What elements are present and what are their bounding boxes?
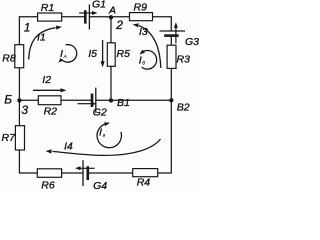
node A xyxy=(109,15,113,19)
wire G1 thin plate to R9 (through node A) xyxy=(89,16,129,18)
loop arrow IB xyxy=(139,50,156,69)
svg-text:I4: I4 xyxy=(64,141,73,153)
resistor R2 xyxy=(38,96,61,105)
svg-text:б: б xyxy=(142,60,145,66)
svg-text:R3: R3 xyxy=(177,53,191,65)
resistor R6 xyxy=(37,169,61,178)
resistor R5 xyxy=(107,43,115,67)
wire top-left corner to R1 xyxy=(19,17,37,45)
svg-text:А: А xyxy=(63,54,67,60)
current arrow I1 xyxy=(29,26,62,60)
svg-text:G3: G3 xyxy=(185,36,199,48)
current arrow I5 xyxy=(101,40,105,67)
resistor R7 xyxy=(15,126,24,150)
wire R7 to bottom-left corner to R6 xyxy=(19,150,37,173)
svg-text:R6: R6 xyxy=(41,179,55,191)
wire left side R8 to R7 (through node Б) xyxy=(18,68,20,126)
resistor R9 xyxy=(130,13,153,21)
svg-text:I5: I5 xyxy=(88,48,97,60)
svg-text:R9: R9 xyxy=(134,2,148,14)
resistor R4 xyxy=(133,169,158,177)
wire R3 to B2 to bottom-right corner xyxy=(158,68,172,173)
svg-text:R4: R4 xyxy=(137,177,151,189)
loop arrow IA xyxy=(58,45,76,63)
wire R2 to G2 thick plate xyxy=(61,99,92,101)
svg-text:A: A xyxy=(108,5,116,17)
node B1 xyxy=(109,98,113,102)
battery G1 xyxy=(79,4,97,29)
svg-text:1: 1 xyxy=(24,21,31,35)
svg-text:I2: I2 xyxy=(42,74,51,86)
wire R1 to G1 thick plate xyxy=(62,16,85,18)
svg-text:R5: R5 xyxy=(117,48,131,60)
svg-text:G1: G1 xyxy=(92,0,106,11)
wire node Б to R2 xyxy=(19,99,38,101)
battery G3 xyxy=(160,22,186,43)
resistor R3 xyxy=(167,45,176,68)
svg-text:I1: I1 xyxy=(37,31,46,43)
wire node A down to R5 xyxy=(110,17,112,43)
node B2 xyxy=(169,98,173,102)
svg-text:R8: R8 xyxy=(2,53,16,65)
svg-text:I3: I3 xyxy=(139,26,148,38)
loop arrow IV xyxy=(97,122,121,148)
current arrow I2 xyxy=(33,88,67,92)
svg-text:G2: G2 xyxy=(93,107,107,119)
battery G2 xyxy=(78,88,97,113)
wire R9 to top-right corner down to G3 xyxy=(153,17,172,31)
svg-text:B1: B1 xyxy=(117,97,130,109)
current arrow I4 xyxy=(46,139,161,155)
svg-text:Б: Б xyxy=(4,92,12,106)
svg-text:2: 2 xyxy=(115,18,123,32)
svg-text:3: 3 xyxy=(21,103,28,117)
svg-text:G4: G4 xyxy=(93,180,107,191)
resistor R1 xyxy=(38,13,62,21)
svg-text:I: I xyxy=(99,127,102,139)
wire R6 to G4 thin plate xyxy=(62,172,83,174)
svg-text:R1: R1 xyxy=(41,2,54,14)
wire G3 thick plate to R3 xyxy=(170,36,172,46)
battery G4 xyxy=(75,160,95,186)
wire G2 thin plate to B2 (through B1) xyxy=(96,99,171,101)
node Б xyxy=(17,98,21,102)
svg-text:B2: B2 xyxy=(177,101,190,113)
svg-text:R2: R2 xyxy=(44,106,58,118)
svg-text:R7: R7 xyxy=(2,132,17,144)
wire R5 to B1 xyxy=(110,66,112,100)
wire G4 thick plate to R4 xyxy=(88,172,133,174)
current arrow I3 xyxy=(133,23,161,68)
resistor R8 xyxy=(15,45,24,68)
